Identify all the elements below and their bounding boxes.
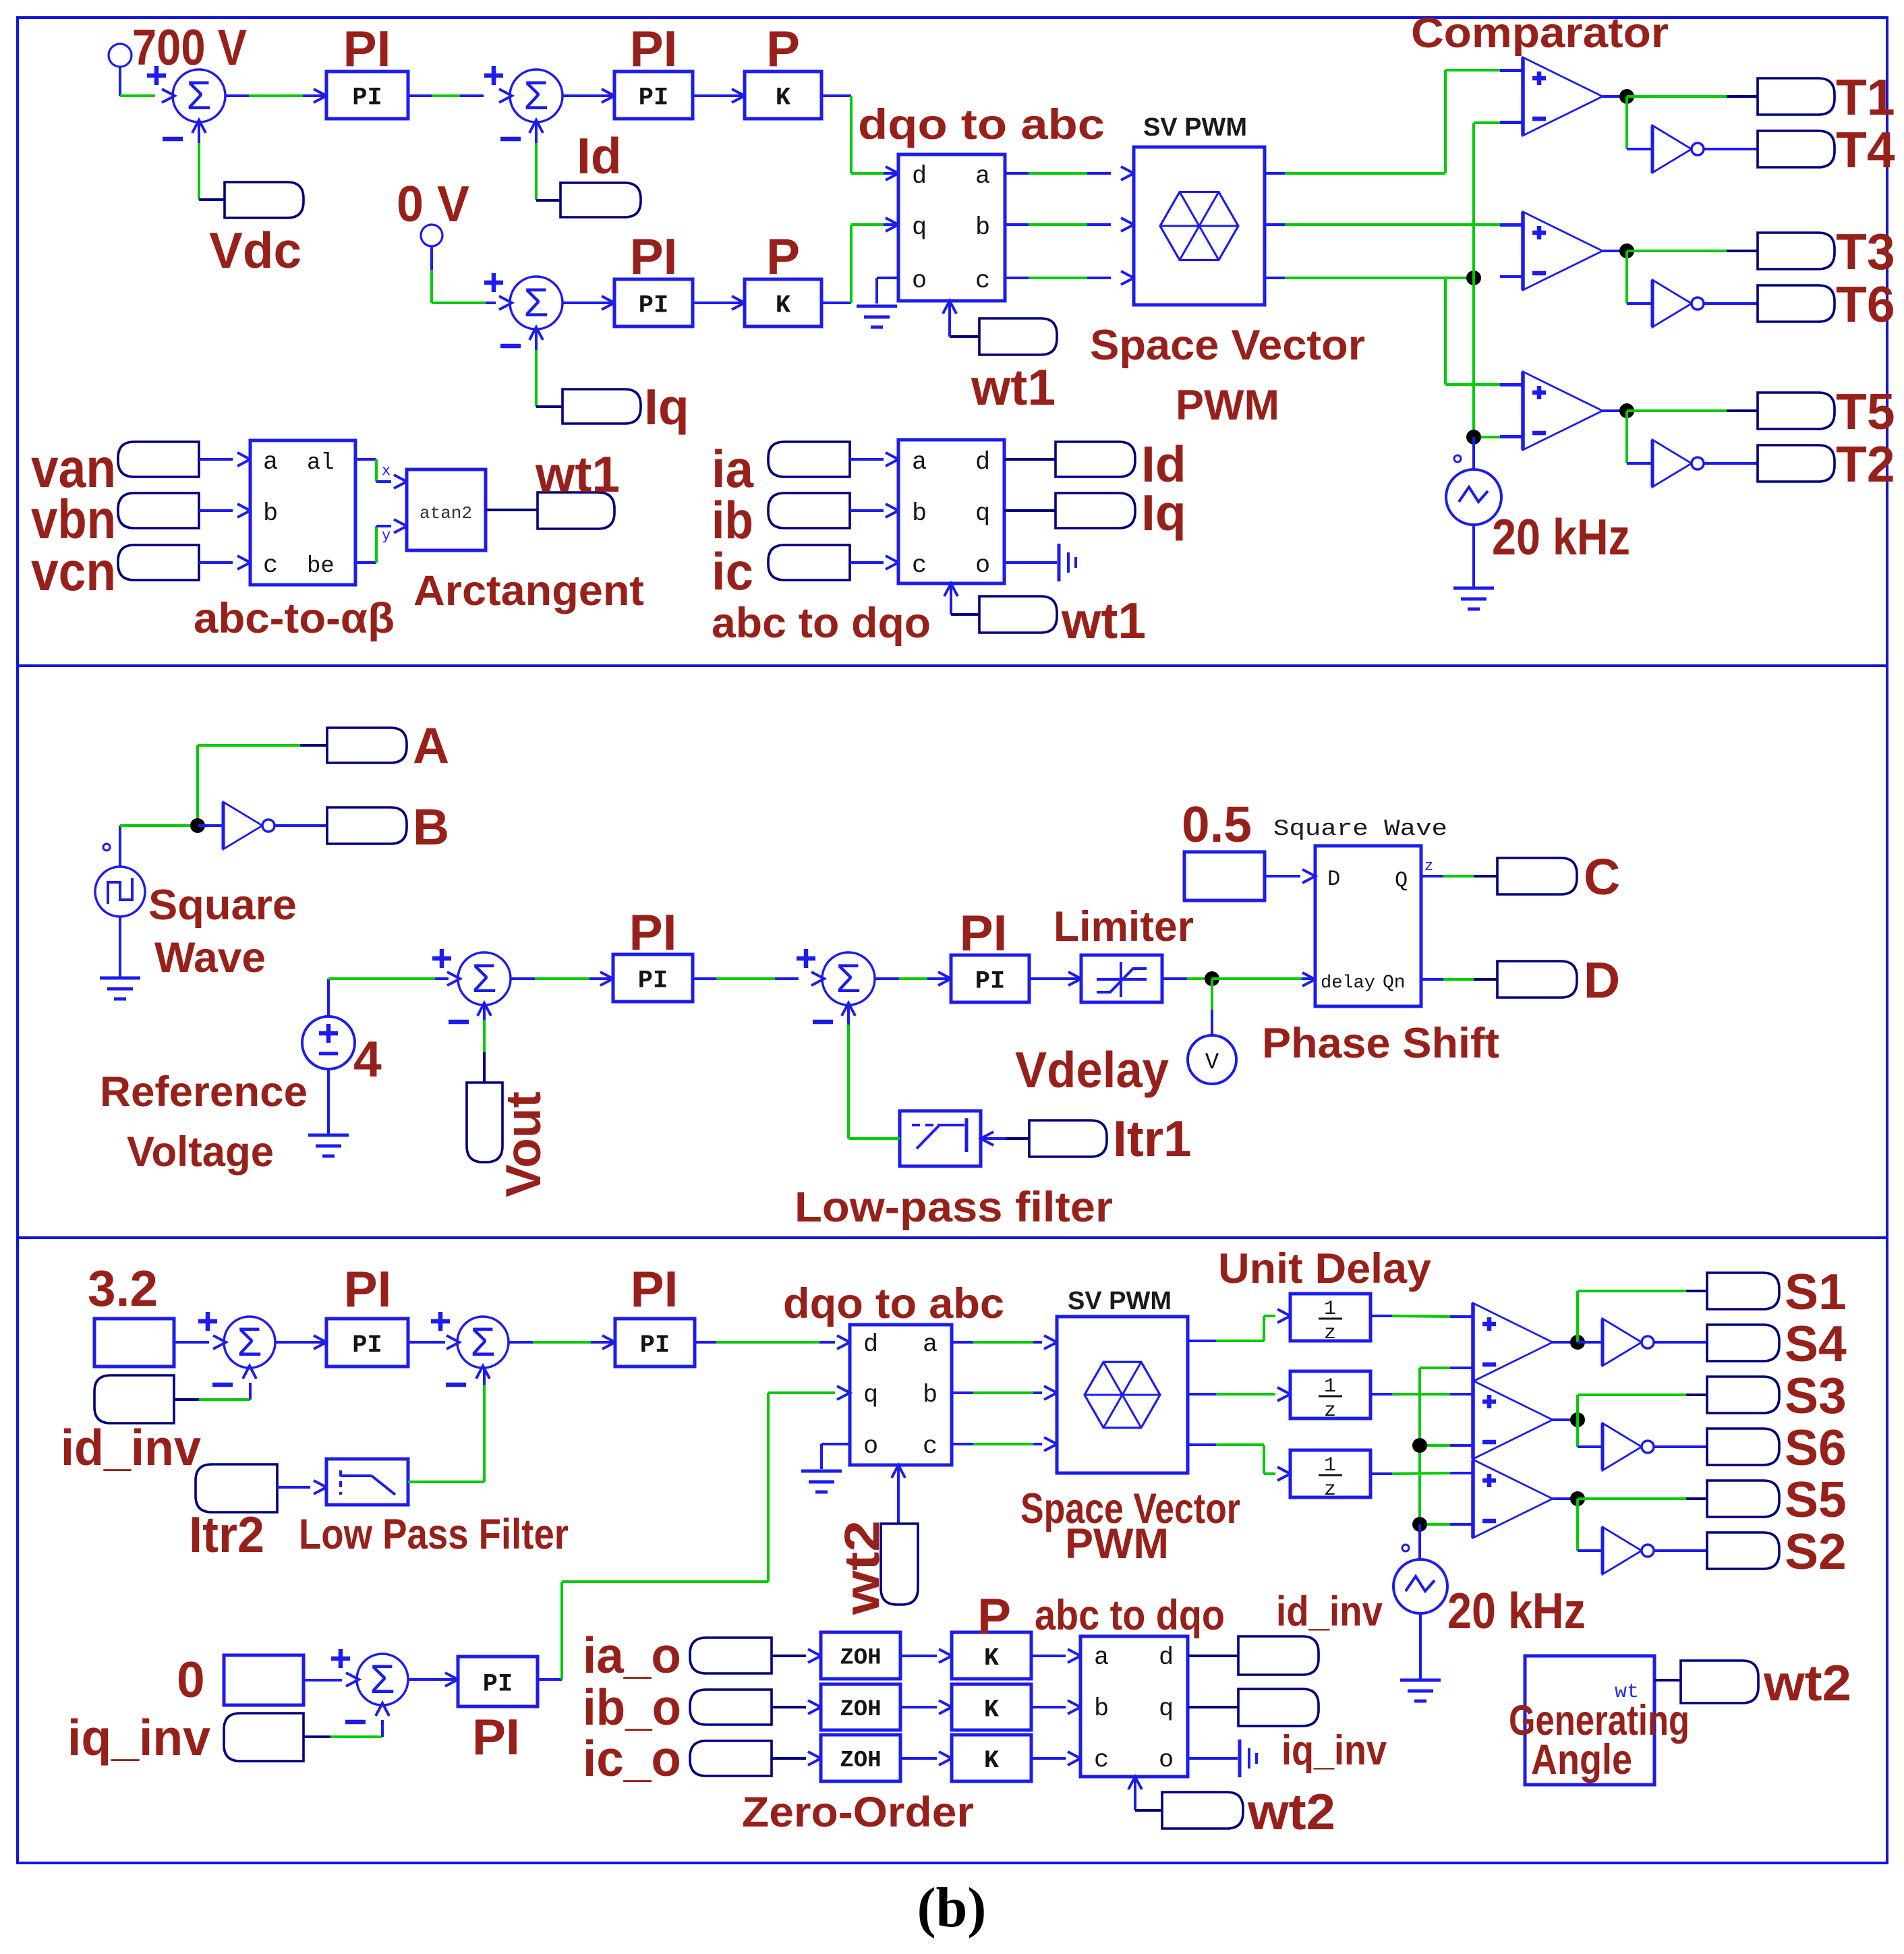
label SV PWM title (panel1) <box>1143 113 1247 142</box>
svg-text:ib_o: ib_o <box>583 1679 681 1735</box>
ground below VREF <box>308 1135 349 1156</box>
svg-text:abc-to-αβ: abc-to-αβ <box>194 595 395 642</box>
svg-text:Angle: Angle <box>1531 1736 1632 1783</box>
svg-text:o: o <box>1159 1746 1174 1775</box>
label bullet ic_o <box>690 1741 772 1776</box>
label id_inv (panel3 left) <box>61 1419 201 1476</box>
pin a U7 <box>1094 1644 1109 1672</box>
svg-text:Phase Shift: Phase Shift <box>1262 1020 1499 1067</box>
wire SUM4 to PI4 <box>511 972 613 985</box>
terminal 0 V <box>421 225 442 270</box>
label Arctangent <box>413 567 644 614</box>
label bullet C <box>1497 858 1577 894</box>
wire VREF to SUM4 <box>328 979 449 1016</box>
svg-text:PI: PI <box>343 20 391 77</box>
svg-text:a: a <box>912 449 927 477</box>
svg-text:SV PWM: SV PWM <box>1143 113 1247 142</box>
label bullet T3 <box>1758 233 1835 269</box>
label T1 <box>1836 69 1895 125</box>
label bullet Id output <box>1056 442 1135 477</box>
arctangent block U3 <box>407 469 486 550</box>
svg-text:Square: Square <box>148 882 297 929</box>
svg-text:Limiter: Limiter <box>1054 903 1194 950</box>
label ib_o <box>583 1679 681 1735</box>
label bullet Vout (vertical) <box>467 1083 502 1162</box>
svg-text:Σ: Σ <box>523 280 548 325</box>
svg-text:S5: S5 <box>1785 1471 1847 1528</box>
svg-text:b: b <box>975 214 990 242</box>
wire PI4 to SUM5 <box>693 977 799 980</box>
svg-text:PI: PI <box>630 228 678 285</box>
svg-text:ia_o: ia_o <box>583 1627 681 1684</box>
P block K1 <box>745 71 821 119</box>
caption (b) <box>917 1876 987 1939</box>
space vector PWM block SVPWM2 <box>1057 1317 1188 1473</box>
svg-text:PI: PI <box>631 1261 679 1317</box>
minus sign SUM2 <box>500 137 521 142</box>
wire carrier source 2 <box>1418 1524 1421 1559</box>
wire id_inv to SUM6 minus <box>174 1383 250 1400</box>
wire van to U2 <box>199 453 250 466</box>
comparator CMP1 <box>1500 57 1603 136</box>
pin label z U5 <box>1424 858 1433 875</box>
wire Itr1 to LPF1 <box>981 1132 1029 1145</box>
svg-text:Σ: Σ <box>237 1319 262 1364</box>
svg-text:T5: T5 <box>1836 383 1895 440</box>
pin a U2 <box>263 449 278 477</box>
pin a U6 <box>923 1331 937 1359</box>
svg-text:Vdc: Vdc <box>209 222 301 279</box>
label Space Vector (panel1) <box>1090 322 1365 369</box>
svg-text:S2: S2 <box>1785 1523 1847 1580</box>
pin label y <box>382 527 391 544</box>
svg-text:K: K <box>776 84 791 112</box>
wire vbn to U2 <box>199 504 250 517</box>
label abc to dqo (panel3) <box>1035 1592 1225 1639</box>
wire U6 a to SVPWM2 <box>952 1335 1057 1349</box>
pin label x <box>382 463 391 480</box>
wire U1 a to SVPWM1 <box>1005 167 1134 180</box>
svg-text:Σ: Σ <box>370 1657 395 1702</box>
label Vout rotated <box>496 1091 551 1197</box>
svg-text:S4: S4 <box>1785 1315 1847 1372</box>
svg-text:abc to dqo: abc to dqo <box>712 600 931 647</box>
wire CMP5 to INV6 <box>1578 1420 1603 1447</box>
wire SUM1 to PI1 <box>225 94 326 97</box>
wire CMP4 to S1 <box>1578 1291 1707 1342</box>
abc-to-alphabeta converter U2 <box>250 440 355 585</box>
pin delay U5 <box>1321 973 1375 994</box>
svg-text:T4: T4 <box>1836 121 1895 178</box>
svg-text:b: b <box>923 1381 937 1410</box>
arrow into PI1 <box>314 89 326 103</box>
triangle carrier source VTRI1 20kHz <box>1446 469 1501 525</box>
junction carrier to CMP3 minus <box>1466 430 1481 444</box>
label Low-pass filter <box>795 1184 1113 1231</box>
wire vcn to U2 <box>199 556 250 569</box>
wire CMP1 to T1 <box>1627 95 1758 98</box>
wire CMP4 to INV5 <box>1578 1341 1603 1344</box>
junction CMP5 out <box>1570 1412 1585 1427</box>
label S1 <box>1785 1263 1847 1320</box>
svg-text:ZOH: ZOH <box>840 1748 881 1774</box>
label bullet ic <box>768 545 850 580</box>
junction CMP3 out <box>1619 403 1634 418</box>
svg-text:K: K <box>984 1644 1000 1673</box>
low-pass filter block LPF1 <box>900 1111 981 1166</box>
svg-text:1: 1 <box>1324 1298 1336 1321</box>
P block K3 <box>952 1632 1031 1679</box>
pin Q U5 <box>1395 868 1408 893</box>
wire node to delay input <box>1212 973 1315 986</box>
svg-text:Comparator: Comparator <box>1411 9 1669 57</box>
label bullet T6 <box>1758 285 1835 322</box>
wire node to voltmeter <box>1211 979 1213 1035</box>
wire U2 be to atan2 y <box>355 519 407 563</box>
label bullet Id feedback <box>560 183 641 217</box>
label bullet van <box>118 442 199 477</box>
svg-text:abc to dqo: abc to dqo <box>1035 1592 1225 1639</box>
svg-text:Vout: Vout <box>496 1091 551 1197</box>
label 700 V <box>132 19 247 76</box>
unit delay block UD3 <box>1290 1450 1371 1501</box>
text atan2 <box>420 503 472 523</box>
PI block PI6 <box>326 1319 408 1367</box>
junction Vdelay node <box>1205 971 1219 986</box>
wire U8 to wt2 <box>1654 1679 1681 1682</box>
wire CMP6 to INV7 <box>1578 1499 1603 1551</box>
svg-text:Wave: Wave <box>154 934 266 981</box>
plus sign SUM8 <box>331 1649 350 1668</box>
svg-text:wt2: wt2 <box>1763 1655 1851 1711</box>
low pass filter block LPF2 <box>326 1459 408 1505</box>
dqo-to-abc converter U1 <box>898 154 1005 301</box>
svg-text:z: z <box>1324 1400 1336 1423</box>
label 0 <box>177 1651 205 1708</box>
plus sign SUM6 <box>198 1312 217 1331</box>
PI block PI8 <box>458 1657 538 1706</box>
label Angle <box>1531 1736 1632 1783</box>
svg-text:b: b <box>912 500 927 528</box>
wire PI6 to SUM7 <box>408 1341 445 1344</box>
svg-text:q: q <box>1159 1695 1174 1723</box>
label bullet ia_o <box>690 1638 772 1673</box>
svg-text:PWM: PWM <box>1176 382 1279 429</box>
label bullet ib_o <box>690 1690 772 1725</box>
pin c U1 <box>975 267 990 295</box>
label Voltage <box>127 1128 274 1176</box>
carrier distribution wire (panel1) <box>1474 123 1523 437</box>
svg-text:D: D <box>1584 952 1620 1008</box>
ground at U6 o-input <box>801 1471 842 1492</box>
svg-text:b: b <box>1094 1695 1109 1723</box>
wire 0 to SUM8 <box>304 1679 342 1682</box>
label bullet Vdc <box>225 182 304 218</box>
label vbn <box>31 489 116 550</box>
label ic_o <box>583 1730 681 1787</box>
svg-text:z: z <box>1424 858 1433 875</box>
svg-text:Σ: Σ <box>836 956 861 1001</box>
label S3 <box>1785 1367 1847 1424</box>
inverter INV3 <box>1652 440 1704 487</box>
svg-text:atan2: atan2 <box>420 503 472 523</box>
comparator CMP3 <box>1500 372 1603 450</box>
svg-text:Zero-Order: Zero-Order <box>742 1789 974 1836</box>
wire CMP4 output <box>1553 1341 1578 1344</box>
label S4 <box>1785 1315 1847 1372</box>
label Vdelay <box>1015 1041 1169 1098</box>
ground below VTRI1 <box>1453 588 1494 609</box>
dc reference source VREF 4 <box>302 1016 355 1069</box>
wire VSQ1 to ground <box>119 917 121 977</box>
label bullet Iq feedback <box>562 389 641 424</box>
svg-text:be: be <box>307 554 335 579</box>
wire ia to U4 <box>850 453 898 466</box>
limiter block LIM1 <box>1081 955 1162 1002</box>
svg-text:K: K <box>984 1696 1000 1724</box>
pin d U6 <box>863 1331 878 1359</box>
label 20 kHz (panel1) <box>1492 509 1630 565</box>
minus sign SUM8 <box>345 1720 366 1725</box>
svg-text:PI: PI <box>472 1708 520 1765</box>
wire UD1 to CMP4 plus <box>1371 1316 1473 1317</box>
label wt1 right of bullet <box>1061 592 1146 649</box>
wire wt pin U7 <box>1128 1777 1162 1810</box>
label bullet wt1 output <box>538 492 614 529</box>
svg-text:PI: PI <box>629 904 677 960</box>
svg-text:(b): (b) <box>917 1876 987 1939</box>
minus sign SUM6 <box>212 1383 233 1387</box>
label SV PWM title (panel3) <box>1068 1287 1172 1315</box>
triangle carrier source VTRI2 20kHz <box>1393 1559 1447 1613</box>
wire PI1 to SUM2 <box>408 94 484 97</box>
svg-text:20 kHz: 20 kHz <box>1492 509 1630 565</box>
wire PI8 to U6 q-input <box>538 1386 850 1679</box>
constant block 3.2 <box>94 1319 174 1367</box>
wire CMP1 to INV1 <box>1627 96 1652 149</box>
inverter INV6 <box>1603 1423 1654 1470</box>
label PI above PI6 <box>344 1261 392 1317</box>
svg-text:Iq: Iq <box>644 378 689 435</box>
label bullet iq_inv input <box>224 1713 304 1761</box>
junction node A/B <box>190 818 205 833</box>
wire PI5 to limiter <box>1029 972 1081 985</box>
svg-text:Low-pass filter: Low-pass filter <box>795 1184 1113 1231</box>
svg-text:a: a <box>975 163 990 191</box>
label Phase Shift <box>1262 1020 1499 1067</box>
wire SUM6 to PI6 <box>275 1335 326 1349</box>
label PI below PI8 <box>472 1708 520 1765</box>
label bullet T4 <box>1758 131 1835 167</box>
PI block PI5 <box>951 955 1029 1002</box>
wire ia_o to ZOH1 <box>772 1649 821 1663</box>
minus sign SUM4 <box>449 1020 469 1025</box>
svg-text:vcn: vcn <box>31 541 116 602</box>
label B <box>413 799 449 855</box>
wire U1 c to SVPWM1 <box>1005 271 1134 285</box>
label S5 <box>1785 1471 1847 1528</box>
svg-text:c: c <box>923 1433 937 1461</box>
wire ib to U4 <box>850 504 898 517</box>
svg-text:PI: PI <box>344 1261 392 1317</box>
inverter INV5 <box>1603 1319 1654 1366</box>
label Low Pass Filter <box>299 1511 569 1558</box>
label T3 <box>1836 223 1895 280</box>
wire Qn to D <box>1421 978 1497 981</box>
svg-text:3.2: 3.2 <box>88 1260 158 1317</box>
wire INV3 to T2 <box>1704 462 1758 465</box>
svg-text:Σ: Σ <box>471 956 496 1001</box>
svg-text:Square Wave: Square Wave <box>1273 817 1447 842</box>
svg-text:ia: ia <box>712 439 754 498</box>
label bullet S5 <box>1707 1481 1779 1517</box>
label bullet wt2 into U7 <box>1162 1792 1243 1829</box>
label Iq <box>644 378 689 435</box>
wire wt pin U4 <box>944 583 979 614</box>
label id_inv output <box>1276 1588 1383 1635</box>
svg-text:c: c <box>1094 1746 1109 1775</box>
wire CMP5 to S3 <box>1578 1395 1707 1420</box>
pin d U4 <box>975 449 990 477</box>
label Comparator <box>1411 9 1669 57</box>
svg-text:Σ: Σ <box>186 73 211 118</box>
svg-text:Σ: Σ <box>470 1319 495 1364</box>
pin q U4 <box>975 500 990 528</box>
summing junction SUM5 <box>811 952 875 1016</box>
junction carrier CMP5 minus <box>1412 1438 1427 1453</box>
label ib <box>712 490 753 550</box>
label dqo to abc (panel1) <box>858 101 1105 148</box>
wire ic_o to ZOH3 <box>772 1752 821 1765</box>
minus sign SUM5 <box>813 1020 833 1025</box>
svg-text:0 V: 0 V <box>397 175 469 232</box>
label bullet S6 <box>1707 1429 1779 1465</box>
PI block PI3 <box>614 279 693 326</box>
wire node to A and inverter <box>120 745 327 826</box>
svg-text:Σ: Σ <box>523 73 548 118</box>
svg-text:Q: Q <box>1395 868 1408 893</box>
svg-text:ic: ic <box>712 542 753 601</box>
pin c U6 <box>923 1433 937 1461</box>
label ic <box>712 542 753 601</box>
svg-text:q: q <box>912 214 927 242</box>
wire SUM1 feedback to Vdc <box>199 123 225 200</box>
border divider panel1/panel2 <box>18 664 1887 667</box>
svg-text:b: b <box>263 500 278 528</box>
pin b U7 <box>1094 1695 1109 1723</box>
svg-text:V: V <box>1205 1050 1219 1076</box>
inverter INV4 (panel2) <box>223 802 275 849</box>
wire CMP1 output <box>1603 95 1627 98</box>
svg-text:PWM: PWM <box>1065 1520 1169 1568</box>
junction CMP6 out <box>1570 1491 1585 1506</box>
label S6 <box>1785 1419 1847 1476</box>
svg-text:Reference: Reference <box>100 1068 308 1116</box>
minus sign SUM7 <box>446 1383 466 1387</box>
summing junction SUM8 <box>346 1654 408 1716</box>
pin q U1 <box>912 214 927 242</box>
label bullet S3 <box>1707 1377 1779 1413</box>
junction CMP4 out <box>1570 1335 1585 1350</box>
junction CMP2 out <box>1619 243 1634 258</box>
svg-text:PI: PI <box>960 904 1008 961</box>
label bullet iq_inv output <box>1238 1689 1319 1726</box>
svg-text:K: K <box>984 1747 1000 1775</box>
svg-text:ib: ib <box>712 490 753 550</box>
svg-text:c: c <box>975 267 990 295</box>
P block K2 <box>745 279 821 326</box>
svg-text:dqo to abc: dqo to abc <box>783 1280 1004 1327</box>
svg-text:a: a <box>923 1331 937 1359</box>
svg-text:P: P <box>766 228 800 285</box>
plus sign SUM2 <box>484 66 503 85</box>
label bullet wt1 into U1 <box>979 318 1057 355</box>
svg-text:S3: S3 <box>1785 1367 1847 1424</box>
wire U7 o to ground <box>1188 1757 1238 1760</box>
label T6 <box>1836 276 1895 333</box>
label bullet wt1 into U4 <box>979 596 1057 633</box>
pin d U7 <box>1159 1644 1174 1672</box>
svg-text:PI: PI <box>638 967 668 995</box>
summing junction SUM6 <box>213 1317 275 1379</box>
label PWM (panel1) <box>1176 382 1279 429</box>
svg-text:PI: PI <box>352 84 382 112</box>
wire 3.2 to SUM6 <box>174 1341 209 1344</box>
pin d U1 <box>912 163 927 191</box>
svg-text:C: C <box>1584 849 1620 905</box>
wire U7 d to id_inv <box>1188 1655 1238 1657</box>
svg-text:ic_o: ic_o <box>583 1730 681 1787</box>
wire LPF2 to SUM7 minus <box>408 1368 484 1482</box>
label PI above PI2 <box>630 20 678 77</box>
label Space Vector (panel3) <box>1020 1485 1240 1532</box>
label 4 <box>353 1031 382 1087</box>
constant block 0.5 <box>1184 852 1265 900</box>
pin c U2 <box>263 552 278 580</box>
wire U4 d to Id <box>1004 458 1056 461</box>
pin wt U8 <box>1615 1681 1639 1704</box>
plus sign SUM1 <box>147 66 166 85</box>
wire INV4 to B <box>275 824 327 827</box>
label C <box>1584 849 1620 905</box>
svg-text:wt2: wt2 <box>1247 1783 1335 1840</box>
svg-text:id_inv: id_inv <box>61 1419 201 1476</box>
wire ground to o-input U1 <box>877 278 898 304</box>
svg-text:al: al <box>307 451 335 476</box>
svg-text:ZOH: ZOH <box>840 1646 881 1671</box>
label bullet ia <box>768 442 850 477</box>
wire UD3 to CMP6 plus <box>1371 1473 1473 1474</box>
wire ic to U4 <box>850 556 898 569</box>
label wt2 right of bullet <box>1247 1783 1335 1840</box>
label abc-to-alphabeta <box>194 595 395 642</box>
svg-text:K: K <box>776 291 791 320</box>
summing junction SUM3 <box>499 277 562 340</box>
wire SUM8 to PI8 <box>408 1673 458 1686</box>
label bullet id_inv output <box>1238 1636 1319 1675</box>
pin Qn U5 <box>1383 973 1406 994</box>
wire limiter to phase-shift delay <box>1162 977 1212 980</box>
pin b U2 <box>263 500 278 528</box>
wire SUM4 feedback to Vout <box>483 1006 486 1083</box>
svg-text:x: x <box>382 463 391 480</box>
wire SVPWM1 b to comparator CMP2 plus <box>1265 223 1523 226</box>
label bullet Iq output <box>1056 493 1135 528</box>
voltmeter VM1 <box>1188 1035 1236 1084</box>
label bullet S4 <box>1707 1325 1779 1361</box>
label Wave <box>154 934 266 981</box>
wire 700V to SUM1 <box>120 94 155 97</box>
